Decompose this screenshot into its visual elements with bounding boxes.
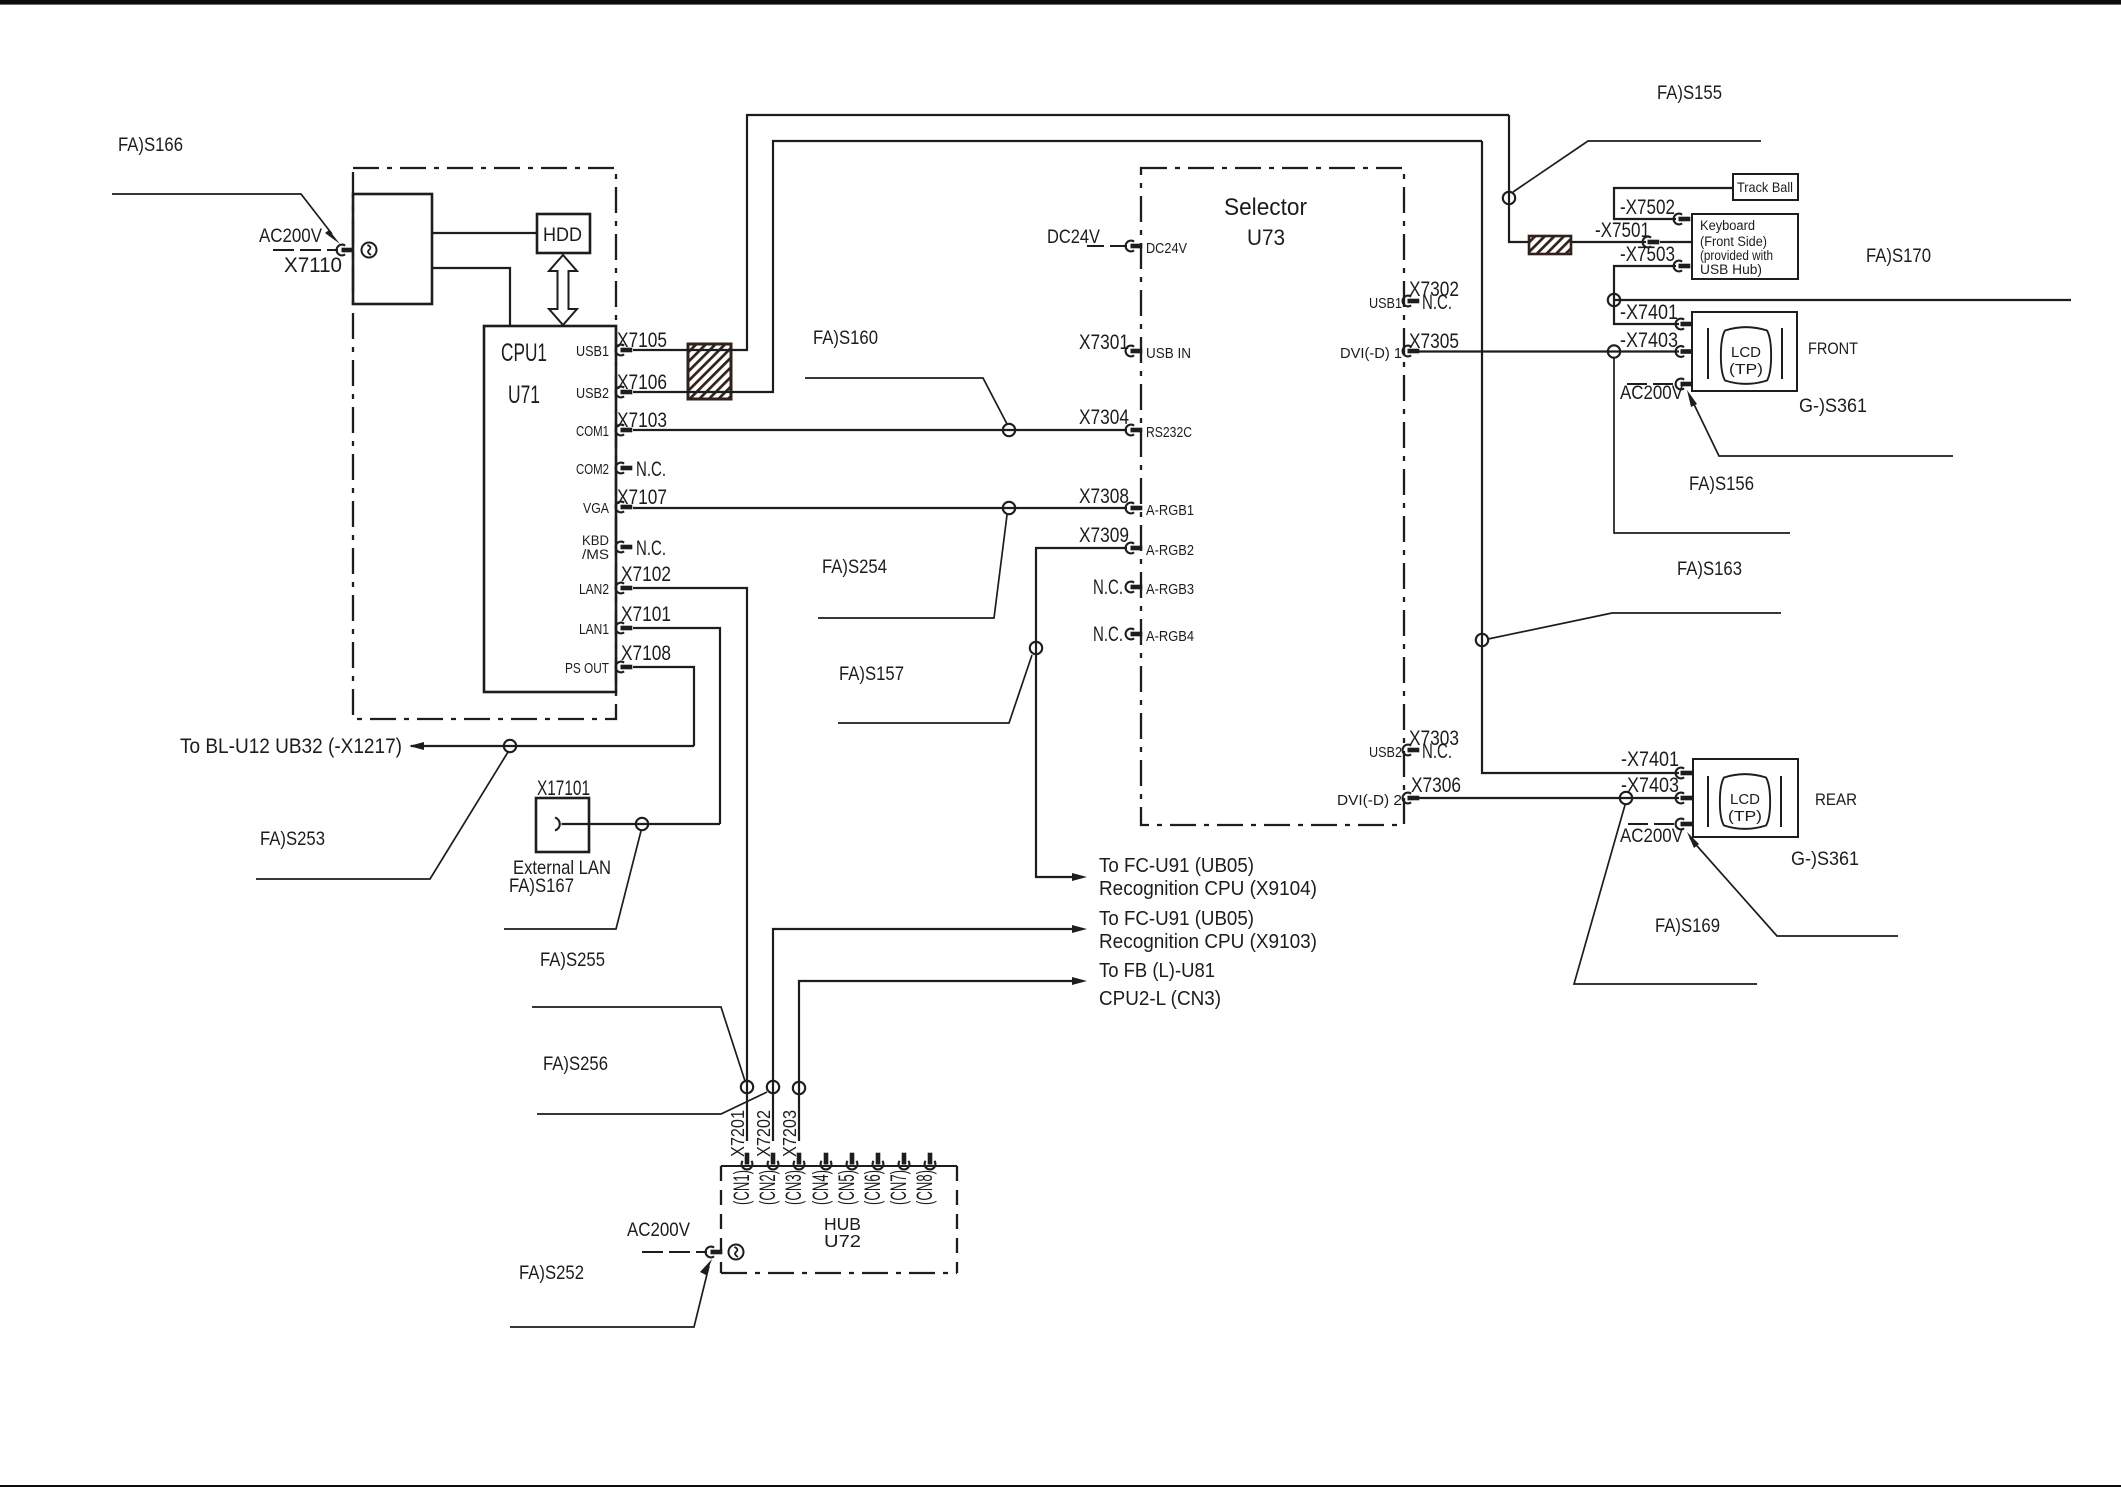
svg-text:/MS: /MS bbox=[582, 547, 609, 562]
svg-text:N.C.: N.C. bbox=[1422, 291, 1452, 314]
label (CN3) bbox=[781, 1170, 806, 1205]
svg-text:-X7401: -X7401 bbox=[1621, 748, 1679, 771]
port LAN1 bbox=[579, 621, 632, 638]
svg-text:LCD: LCD bbox=[1731, 345, 1761, 361]
svg-text:(CN2): (CN2) bbox=[755, 1170, 780, 1205]
svg-text:REAR: REAR bbox=[1815, 790, 1857, 809]
pin CN1 connector bbox=[742, 1153, 753, 1170]
junction circle on DVI2 wire bbox=[1620, 792, 1632, 804]
svg-text:FA)S157: FA)S157 bbox=[839, 664, 904, 685]
label X7203 rotated bbox=[780, 1110, 800, 1157]
pin CN5 connector bbox=[847, 1153, 858, 1170]
svg-text:DC24V: DC24V bbox=[1146, 240, 1187, 257]
leader line FA)S157 bbox=[838, 655, 1032, 723]
label (CN2) bbox=[755, 1170, 780, 1205]
svg-text:X7304: X7304 bbox=[1079, 406, 1129, 429]
svg-text:USB Hub): USB Hub) bbox=[1700, 262, 1762, 277]
leader line FA)S167 bbox=[504, 831, 641, 929]
wire Track Ball to -X7502 bbox=[1614, 188, 1733, 219]
svg-text:FA)S163: FA)S163 bbox=[1677, 559, 1742, 580]
wire To BL-U12 with arrow bbox=[409, 742, 694, 750]
svg-text:FA)S253: FA)S253 bbox=[260, 829, 325, 850]
svg-text:-X7403: -X7403 bbox=[1620, 329, 1678, 352]
leader arrow G-)S361 REAR bbox=[1687, 832, 1898, 936]
svg-text:AC200V: AC200V bbox=[1620, 383, 1683, 404]
CPU1 box bbox=[484, 326, 616, 692]
connector FRONT AC200V bbox=[1676, 379, 1693, 390]
label FA)S252 bbox=[519, 1263, 584, 1284]
ferrite hatch box on keyboard cable bbox=[1529, 236, 1571, 254]
label FA)S169 bbox=[1655, 916, 1720, 937]
top border bar bbox=[0, 0, 2121, 5]
svg-text:FA)S256: FA)S256 bbox=[543, 1054, 608, 1075]
pin CN8 connector bbox=[925, 1153, 936, 1170]
label U72 bbox=[824, 1231, 861, 1251]
junction circle on DVI1 wire bbox=[1608, 345, 1620, 357]
connector -X7502 bbox=[1674, 214, 1691, 225]
label HUB bbox=[824, 1214, 861, 1234]
label U71 bbox=[508, 381, 540, 409]
svg-text:USB1: USB1 bbox=[576, 343, 609, 360]
svg-text:DVI(-D) 2: DVI(-D) 2 bbox=[1337, 792, 1402, 809]
wire LAN2 X7102 to HUB CN1 bbox=[633, 588, 747, 1141]
svg-text:X17101: X17101 bbox=[537, 777, 590, 800]
svg-text:N.C.: N.C. bbox=[636, 537, 666, 560]
label FRONT bbox=[1808, 339, 1858, 358]
svg-text:FA)S160: FA)S160 bbox=[813, 328, 878, 349]
svg-text:(CN6): (CN6) bbox=[860, 1170, 885, 1205]
label -X7502 bbox=[1620, 196, 1675, 219]
svg-text:AC200V: AC200V bbox=[259, 226, 322, 247]
HDD box bbox=[537, 214, 590, 253]
svg-text:X7308: X7308 bbox=[1079, 485, 1129, 508]
connector REAR AC200V bbox=[1676, 819, 1693, 830]
svg-text:X7106: X7106 bbox=[617, 371, 667, 394]
power supply box bbox=[353, 194, 432, 304]
wire USB2 cable down right side bbox=[1482, 141, 1679, 773]
wire X7309 A-RGB2 to recognition CPU X9104 bbox=[1036, 548, 1127, 881]
wire FA)S170 cable bbox=[1614, 299, 2071, 301]
svg-text:PS OUT: PS OUT bbox=[565, 660, 609, 677]
svg-text:VGA: VGA bbox=[583, 500, 609, 517]
port A-RGB2 X7309 bbox=[1079, 524, 1194, 559]
label (CN6) bbox=[860, 1170, 885, 1205]
connector -X7503 bbox=[1674, 261, 1691, 272]
svg-text:To FB (L)-U81: To FB (L)-U81 bbox=[1099, 959, 1215, 982]
Keyboard box bbox=[1692, 214, 1798, 279]
label X7108 bbox=[621, 642, 671, 665]
leader line FA)S169 bbox=[1574, 805, 1757, 984]
svg-text:CPU2-L (CN3): CPU2-L (CN3) bbox=[1099, 987, 1221, 1010]
leader line FA)S252 with arrow bbox=[510, 1259, 712, 1327]
label (CN1) bbox=[729, 1170, 754, 1205]
leader line FA)S163 bbox=[1488, 613, 1781, 639]
Selector U73 dashed box bbox=[1141, 168, 1404, 825]
svg-text:(provided with: (provided with bbox=[1700, 248, 1773, 263]
wire LAN1 X7101 to external LAN bbox=[633, 628, 720, 824]
wire USB1 cable down to keyboard -X7501 bbox=[1509, 115, 1692, 242]
label X7106 bbox=[617, 371, 667, 394]
AC source symbol HUB bbox=[729, 1245, 744, 1260]
wire USB2 X7106 run bbox=[633, 141, 1482, 392]
svg-text:RS232C: RS232C bbox=[1146, 424, 1192, 441]
double arrow HDD-CPU bbox=[549, 255, 577, 325]
connector FRONT -X7403 bbox=[1676, 346, 1693, 357]
label X7103 bbox=[617, 409, 667, 432]
svg-text:COM1: COM1 bbox=[576, 423, 609, 440]
label FRONT -X7401 bbox=[1620, 301, 1678, 324]
wire X7203 CN3 to FB CPU2-L bbox=[799, 977, 1087, 1141]
svg-text:A-RGB2: A-RGB2 bbox=[1146, 542, 1194, 559]
port DVI(-D) 1 X7305 bbox=[1340, 330, 1459, 362]
svg-text:-X7501: -X7501 bbox=[1595, 219, 1650, 242]
svg-text:-X7401: -X7401 bbox=[1620, 301, 1678, 324]
leader line FA)S160 bbox=[805, 378, 1007, 424]
svg-text:Recognition CPU (X9104): Recognition CPU (X9104) bbox=[1099, 877, 1317, 900]
port A-RGB4 N.C. bbox=[1093, 623, 1194, 646]
svg-text:FA)S252: FA)S252 bbox=[519, 1263, 584, 1284]
label -X7503 bbox=[1620, 243, 1675, 266]
label REAR -X7403 bbox=[1621, 774, 1679, 797]
junction circle on CN2 wire bbox=[767, 1081, 779, 1093]
wire AC200V dashed stub FRONT bbox=[1627, 383, 1673, 385]
svg-text:AC200V: AC200V bbox=[627, 1220, 690, 1241]
label To FC-U91 (UB05) / X9104 bbox=[1099, 854, 1317, 900]
label -X7501 bbox=[1595, 219, 1650, 242]
svg-text:U71: U71 bbox=[508, 381, 540, 409]
label (CN5) bbox=[834, 1170, 859, 1205]
junction circle on A-RGB2 wire bbox=[1030, 642, 1042, 654]
svg-text:FA)S170: FA)S170 bbox=[1866, 246, 1931, 267]
wire power to HDD bbox=[432, 232, 537, 234]
svg-text:X7102: X7102 bbox=[621, 563, 671, 586]
wire power to CPU1 bbox=[432, 268, 510, 326]
label To FB (L)-U81 CPU2-L (CN3) bbox=[1099, 959, 1221, 1010]
connector REAR -X7401 bbox=[1676, 768, 1693, 779]
AC source symbol bbox=[362, 243, 377, 258]
svg-text:FA)S166: FA)S166 bbox=[118, 135, 183, 156]
svg-text:DVI(-D) 1: DVI(-D) 1 bbox=[1340, 345, 1402, 362]
svg-text:N.C.: N.C. bbox=[1093, 576, 1123, 599]
label FRONT -X7403 bbox=[1620, 329, 1678, 352]
pin CN4 connector bbox=[821, 1153, 832, 1170]
wire -X7503 to FRONT -X7401 bbox=[1614, 266, 1679, 324]
svg-text:-X7503: -X7503 bbox=[1620, 243, 1675, 266]
wire USB1 X7105 run bbox=[633, 115, 1509, 350]
label X7101 bbox=[621, 603, 671, 626]
wire external LAN to LAN1 bbox=[562, 823, 721, 825]
label X7202 rotated bbox=[754, 1110, 774, 1157]
svg-text:USB2: USB2 bbox=[1369, 744, 1402, 761]
svg-text:N.C.: N.C. bbox=[1422, 740, 1452, 763]
label To BL-U12 UB32 (-X1217) bbox=[180, 735, 402, 758]
wire AC200V dashed stub REAR bbox=[1628, 823, 1674, 825]
leader line FA)S254 bbox=[818, 515, 1007, 618]
external LAN connector box X17101 bbox=[536, 798, 589, 852]
pin CN2 connector bbox=[768, 1153, 779, 1170]
svg-text:DC24V: DC24V bbox=[1047, 227, 1100, 248]
label FA)S167 bbox=[509, 876, 574, 897]
svg-text:FA)S255: FA)S255 bbox=[540, 950, 605, 971]
svg-text:A-RGB3: A-RGB3 bbox=[1146, 581, 1194, 598]
pin CN6 connector bbox=[873, 1153, 884, 1170]
svg-text:FRONT: FRONT bbox=[1808, 339, 1858, 358]
port VGA bbox=[583, 500, 632, 517]
svg-text:X7203: X7203 bbox=[780, 1110, 800, 1157]
wire COM1 X7103 to RS232C bbox=[633, 429, 1127, 431]
port A-RGB3 N.C. bbox=[1093, 576, 1194, 599]
svg-text:FA)S169: FA)S169 bbox=[1655, 916, 1720, 937]
connector REAR -X7403 bbox=[1676, 793, 1693, 804]
wire X7202 CN2 to recognition CPU X9103 bbox=[773, 925, 1087, 1141]
port USB1 (CPU) bbox=[576, 343, 632, 360]
svg-text:(CN4): (CN4) bbox=[808, 1170, 833, 1205]
label FA)S160 bbox=[813, 328, 878, 349]
svg-text:USB1: USB1 bbox=[1369, 295, 1402, 312]
label (CN8) bbox=[912, 1170, 937, 1205]
svg-text:X7301: X7301 bbox=[1079, 331, 1129, 354]
svg-text:FA)S254: FA)S254 bbox=[822, 557, 887, 578]
svg-text:Track Ball: Track Ball bbox=[1737, 179, 1793, 195]
svg-text:To BL-U12 UB32 (-X1217): To BL-U12 UB32 (-X1217) bbox=[180, 735, 402, 758]
label (CN4) bbox=[808, 1170, 833, 1205]
junction circle on external LAN wire bbox=[636, 818, 648, 830]
wire AC200V dashed stub to X7110 bbox=[273, 249, 338, 251]
label FA)S256 bbox=[543, 1054, 608, 1075]
svg-text:LAN2: LAN2 bbox=[579, 581, 609, 598]
port KBD/MS N.C. bbox=[582, 533, 666, 562]
svg-text:USB IN: USB IN bbox=[1146, 345, 1191, 362]
svg-text:LAN1: LAN1 bbox=[579, 621, 609, 638]
port COM2 N.C. bbox=[576, 458, 666, 481]
leader line FA)S156 bbox=[1614, 358, 1790, 533]
label X7102 bbox=[621, 563, 671, 586]
svg-text:(Front Side): (Front Side) bbox=[1700, 234, 1767, 249]
svg-text:A-RGB4: A-RGB4 bbox=[1146, 628, 1194, 645]
svg-text:Recognition CPU (X9103): Recognition CPU (X9103) bbox=[1099, 930, 1317, 953]
svg-text:(CN1): (CN1) bbox=[729, 1170, 754, 1205]
wire DC24V dashed stub bbox=[1087, 245, 1127, 247]
label FA)S156 bbox=[1689, 474, 1754, 495]
svg-text:CPU1: CPU1 bbox=[501, 339, 547, 367]
label FA)S157 bbox=[839, 664, 904, 685]
connector FRONT -X7401 bbox=[1676, 319, 1693, 330]
label External LAN bbox=[513, 857, 611, 879]
svg-text:USB2: USB2 bbox=[576, 385, 609, 402]
svg-text:(CN8): (CN8) bbox=[912, 1170, 937, 1205]
leader line FA)S166 to X7110 bbox=[112, 194, 340, 244]
svg-text:(CN7): (CN7) bbox=[886, 1170, 911, 1205]
port USB1 X7302 N.C. (selector right) bbox=[1369, 278, 1459, 314]
port USB IN X7301 bbox=[1079, 331, 1191, 362]
svg-text:AC200V: AC200V bbox=[1620, 826, 1683, 847]
leader line FA)S256 bbox=[537, 1092, 767, 1114]
label G-)S361 FRONT bbox=[1799, 396, 1867, 417]
svg-text:KBD: KBD bbox=[582, 533, 609, 548]
label CPU1 bbox=[501, 339, 547, 367]
junction circle on USB2 cable bbox=[1476, 634, 1488, 646]
connector X7110 bbox=[337, 245, 354, 256]
connector -X7501 bbox=[1643, 237, 1660, 248]
pin CN3 connector bbox=[794, 1153, 805, 1170]
svg-text:X7107: X7107 bbox=[617, 486, 667, 509]
svg-text:X7202: X7202 bbox=[754, 1110, 774, 1157]
wire PS OUT X7108 bbox=[633, 667, 694, 746]
REAR LCD box bbox=[1693, 759, 1798, 837]
svg-text:X7110: X7110 bbox=[284, 254, 342, 277]
port COM1 bbox=[576, 423, 632, 440]
label X7107 bbox=[617, 486, 667, 509]
label FA)S166 bbox=[118, 135, 183, 156]
junction circle FA)S170 tap bbox=[1608, 294, 1620, 306]
svg-text:X7105: X7105 bbox=[617, 329, 667, 352]
svg-text:X7103: X7103 bbox=[617, 409, 667, 432]
port PS OUT bbox=[565, 660, 632, 677]
dash-dot boundary box around CPU unit bbox=[353, 168, 616, 719]
label FA)S163 bbox=[1677, 559, 1742, 580]
label DC24V external bbox=[1047, 227, 1100, 248]
label FA)S255 bbox=[540, 950, 605, 971]
label G-)S361 REAR bbox=[1791, 849, 1859, 870]
label X17101 bbox=[537, 777, 590, 800]
svg-text:FA)S155: FA)S155 bbox=[1657, 83, 1722, 104]
svg-text:LCD: LCD bbox=[1730, 792, 1760, 808]
port USB2 X7303 N.C. (selector right) bbox=[1369, 727, 1459, 763]
HUB U72 box bbox=[721, 1166, 957, 1273]
svg-text:N.C.: N.C. bbox=[636, 458, 666, 481]
svg-text:-X7403: -X7403 bbox=[1621, 774, 1679, 797]
svg-text:U73: U73 bbox=[1247, 225, 1285, 250]
leader line FA)S155 bbox=[1513, 141, 1761, 192]
FRONT LCD box bbox=[1692, 312, 1797, 391]
bottom border line bbox=[0, 1485, 2121, 1487]
svg-text:HDD: HDD bbox=[543, 225, 582, 246]
label REAR AC200V bbox=[1620, 826, 1683, 847]
junction circle on COM1 wire bbox=[1003, 424, 1015, 436]
svg-text:N.C.: N.C. bbox=[1093, 623, 1123, 646]
junction circle on USB1 cable bbox=[1503, 192, 1515, 204]
label To FC-U91 (UB05) / X9103 bbox=[1099, 907, 1317, 953]
label AC200V (HUB) bbox=[627, 1220, 690, 1241]
svg-text:(CN3): (CN3) bbox=[781, 1170, 806, 1205]
label FA)S155 bbox=[1657, 83, 1722, 104]
label REAR -X7401 bbox=[1621, 748, 1679, 771]
wire AC200V dashed stub to HUB bbox=[642, 1251, 707, 1253]
label FA)S253 bbox=[260, 829, 325, 850]
svg-text:Selector: Selector bbox=[1224, 194, 1307, 221]
ferrite hatch box on USB wires bbox=[688, 344, 731, 399]
wire DVI2 X7306 to REAR -X7403 bbox=[1418, 797, 1679, 799]
junction circle on LAN2 wire bbox=[741, 1081, 753, 1093]
svg-text:To FC-U91 (UB05): To FC-U91 (UB05) bbox=[1099, 907, 1254, 930]
svg-text:-X7502: -X7502 bbox=[1620, 196, 1675, 219]
port DVI(-D) 2 X7306 bbox=[1337, 774, 1461, 809]
leader arrow G-)S361 FRONT bbox=[1687, 390, 1953, 456]
port DC24V (selector) bbox=[1126, 240, 1187, 257]
label AC200V (X7110) bbox=[259, 226, 322, 247]
svg-text:X7306: X7306 bbox=[1411, 774, 1461, 797]
port RS232C X7304 bbox=[1079, 406, 1192, 441]
leader line FA)S255 bbox=[532, 1007, 745, 1081]
label X7201 rotated bbox=[728, 1110, 748, 1157]
pin CN7 connector bbox=[899, 1153, 910, 1170]
Track Ball box bbox=[1733, 174, 1798, 200]
svg-text:(TP): (TP) bbox=[1728, 809, 1762, 825]
wire DVI1 X7305 to FRONT -X7403 bbox=[1418, 350, 1679, 352]
port A-RGB1 X7308 bbox=[1079, 485, 1194, 519]
wire VGA X7107 to A-RGB1 bbox=[633, 507, 1127, 509]
label X7110 bbox=[284, 254, 342, 277]
connector AC200V HUB bbox=[706, 1247, 723, 1258]
leader line FA)S253 bbox=[256, 752, 508, 879]
svg-text:COM2: COM2 bbox=[576, 461, 609, 478]
svg-text:U72: U72 bbox=[824, 1231, 861, 1251]
svg-text:X7309: X7309 bbox=[1079, 524, 1129, 547]
svg-text:G-)S361: G-)S361 bbox=[1799, 396, 1867, 417]
svg-text:To FC-U91 (UB05): To FC-U91 (UB05) bbox=[1099, 854, 1254, 877]
svg-text:A-RGB1: A-RGB1 bbox=[1146, 502, 1194, 519]
svg-text:G-)S361: G-)S361 bbox=[1791, 849, 1859, 870]
svg-text:X7201: X7201 bbox=[728, 1110, 748, 1157]
svg-text:X7108: X7108 bbox=[621, 642, 671, 665]
svg-text:(CN5): (CN5) bbox=[834, 1170, 859, 1205]
label (CN7) bbox=[886, 1170, 911, 1205]
label REAR bbox=[1815, 790, 1857, 809]
svg-text:FA)S167: FA)S167 bbox=[509, 876, 574, 897]
svg-text:Keyboard: Keyboard bbox=[1700, 218, 1755, 233]
label Selector bbox=[1224, 194, 1307, 221]
port USB2 (CPU) bbox=[576, 385, 632, 402]
svg-text:X7305: X7305 bbox=[1409, 330, 1459, 353]
label U73 bbox=[1247, 225, 1285, 250]
label FRONT AC200V bbox=[1620, 383, 1683, 404]
junction circle on BL-U12 wire bbox=[504, 740, 516, 752]
junction circle on CN3 wire bbox=[793, 1082, 805, 1094]
svg-text:X7101: X7101 bbox=[621, 603, 671, 626]
junction circle on VGA wire bbox=[1003, 502, 1015, 514]
label FA)S170 bbox=[1866, 246, 1931, 267]
port LAN2 bbox=[579, 581, 632, 598]
svg-text:FA)S156: FA)S156 bbox=[1689, 474, 1754, 495]
label X7105 bbox=[617, 329, 667, 352]
label FA)S254 bbox=[822, 557, 887, 578]
svg-text:(TP): (TP) bbox=[1729, 362, 1763, 378]
